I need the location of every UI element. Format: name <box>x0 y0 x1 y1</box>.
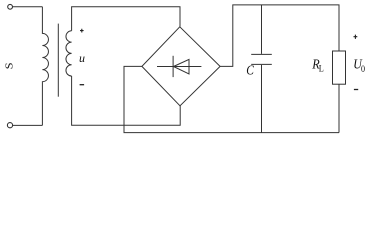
capacitor C top plate <box>251 53 272 55</box>
terminal (top-left input) <box>8 4 13 9</box>
label + (secondary top polarity) <box>80 29 84 33</box>
secondary winding of transformer T <box>66 31 72 76</box>
wire secondary bottom to bridge bottom <box>72 76 181 125</box>
wire bridge right corner to top rail (positive DC rail) <box>220 5 339 67</box>
wire primary bottom <box>13 124 43 126</box>
terminal (bottom-left input) <box>7 123 12 128</box>
transformer core <box>57 24 59 97</box>
wire primary top <box>13 6 43 8</box>
svg-text:RL: RL <box>311 56 323 74</box>
resistor RL rectangle <box>333 51 346 84</box>
wire capacitor branch lower <box>261 65 263 133</box>
wire resistor bottom to bottom rail <box>338 84 340 132</box>
wire bridge left corner to bottom rail (negative DC rail) <box>124 66 339 132</box>
svg-text:U0: U0 <box>353 56 365 74</box>
capacitor C bottom plate <box>251 63 272 65</box>
label + (output polarity top) <box>354 35 358 39</box>
primary winding of transformer T <box>42 7 48 126</box>
label - (secondary bottom polarity) <box>80 84 85 86</box>
label - (output polarity bottom) <box>354 89 358 91</box>
bridge rectifier diamond <box>142 27 220 106</box>
wire secondary top rail to bridge top <box>72 7 180 31</box>
diode D inside bridge: horizontal lead <box>157 66 201 68</box>
svg-text:u: u <box>79 51 85 65</box>
diode D triangle (pointing left) <box>174 59 190 74</box>
diode D cathode bar <box>172 56 174 77</box>
svg-text:C: C <box>246 63 254 78</box>
svg-text:S: S <box>5 62 16 69</box>
wire capacitor branch upper <box>261 5 263 54</box>
